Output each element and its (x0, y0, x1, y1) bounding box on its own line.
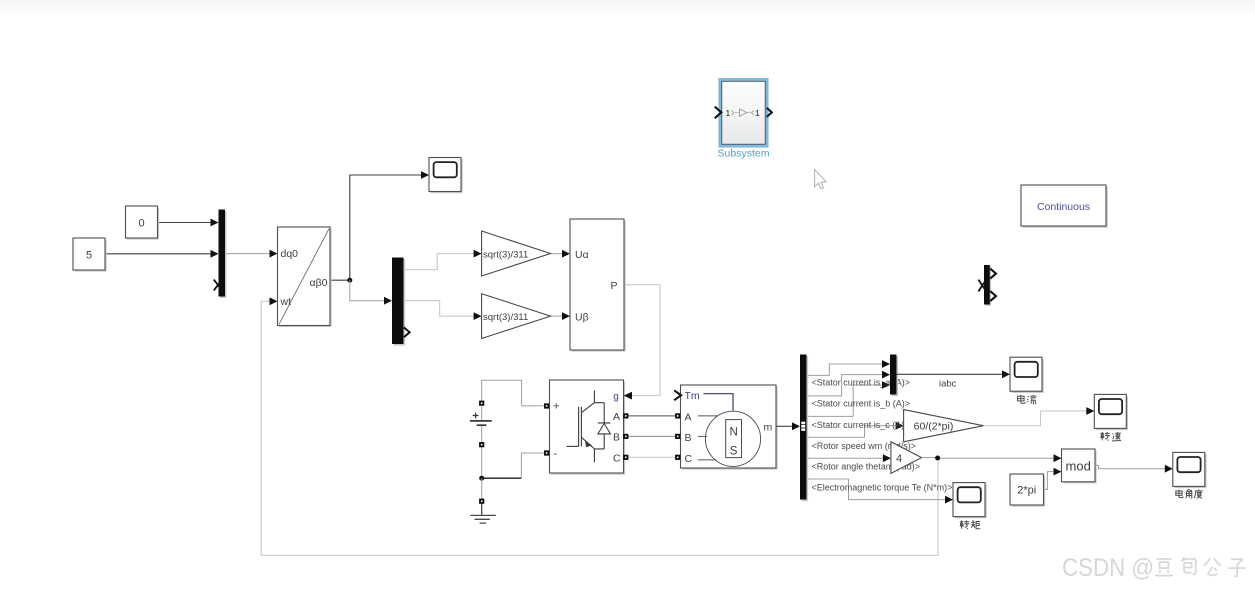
svg-text:<Stator current is_c (A)>: <Stator current is_c (A)> (812, 420, 910, 430)
svg-text:<Electromagnetic torque Te (N*: <Electromagnetic torque Te (N*m)> (812, 483, 953, 493)
wire: bus out4 rotor speed to gain 60/(2*pi) (807, 426, 896, 438)
constant block 5 (75, 240, 107, 272)
svg-text:+: + (553, 401, 559, 413)
wire: gain 4 to mod (922, 457, 1054, 460)
svg-text:B: B (613, 432, 620, 444)
label scope zhuanju (960, 520, 981, 529)
svg-text:A: A (613, 411, 620, 423)
wire: 2*pi to mod in2 (1044, 472, 1054, 490)
wire: constant 0 to Mux (158, 222, 211, 224)
svg-text:-: - (554, 448, 558, 460)
wire: converter C to motor C (628, 456, 676, 458)
wire: DC source top to converter + (482, 380, 544, 406)
node: junction on gain 4 output (935, 456, 940, 461)
wire: mod to scope dianjiaodu (1095, 465, 1165, 468)
node: junction at battery bottom (479, 476, 484, 481)
svg-text:C: C (613, 453, 621, 465)
wire: gain 60 to scope zhuansu (983, 411, 1086, 426)
wire: Demux out2 to Gain sqrt(3)/311 lower (404, 301, 474, 317)
constant block 0 (127, 208, 159, 240)
wire: bus out3 to mux in3 (807, 385, 883, 416)
wire: bus out1 to mux in1 (807, 364, 883, 375)
constant 2*pi (1012, 476, 1046, 507)
svg-text:S: S (730, 446, 738, 458)
svg-text:1: 1 (755, 108, 760, 118)
wire: bus out6 torque to scope (807, 479, 946, 500)
node: unconnected third Mux input X (214, 280, 222, 291)
IGBT and diode icon (567, 391, 611, 463)
wire: Demux out1 to Gain sqrt(3)/311 upper (404, 254, 474, 270)
scope dianjiaodu (1173, 452, 1207, 488)
bus selector block (802, 356, 809, 501)
svg-text:g: g (613, 392, 619, 403)
svg-text:CSDN @: CSDN @ (1062, 554, 1154, 582)
wire: bus out5 rotor angle to gain 4 (807, 457, 883, 459)
gain sqrt(3)/311 upper (482, 231, 551, 276)
svg-text:C: C (685, 453, 693, 465)
motor rotor circle (705, 411, 760, 466)
scope zhuanju (953, 483, 987, 519)
node: junction on dq0 output (347, 278, 352, 283)
mouse cursor (815, 170, 827, 189)
label scope dianliu (1018, 395, 1037, 404)
svg-text:Continuous: Continuous (1037, 201, 1090, 213)
wire: Gain upper to Ua input (551, 253, 563, 255)
label scope dianjiaodu (1176, 489, 1203, 498)
svg-text:αβ0: αβ0 (310, 277, 328, 289)
wire: P output to converter g input (624, 285, 660, 396)
svg-text:m: m (764, 422, 773, 434)
svg-text:5: 5 (86, 250, 92, 262)
ground symbol (479, 499, 484, 504)
gain 60/(2*pi) (904, 410, 984, 442)
block Ua Ub to P (572, 221, 626, 352)
svg-text:A: A (685, 411, 692, 423)
svg-text:2*pi: 2*pi (1017, 485, 1036, 497)
motor internal stubs (698, 415, 718, 417)
svg-text:1: 1 (726, 108, 731, 118)
watermark douBaoGongZi (1155, 557, 1246, 576)
toolbar bottom gradient strip (0, 0, 1255, 16)
node: unconnected demux out3 chevron (404, 327, 410, 337)
mux Mux1 (220, 211, 227, 298)
demux block (394, 259, 406, 346)
svg-text:Tm: Tm (685, 390, 700, 402)
block dq0 to alpha-beta-0 transform (279, 229, 332, 328)
svg-text:dq0: dq0 (281, 248, 299, 260)
block Continuous (powergui) (1023, 187, 1108, 228)
gain 4 (891, 442, 922, 474)
wire: junction down to Demux (350, 280, 384, 301)
wire: mux to scope dianliu (897, 373, 1003, 375)
bus selector input marker (801, 421, 806, 431)
wire: DC source bottom to junction (481, 447, 483, 478)
wire: constant 5 to Mux (105, 253, 211, 255)
svg-text:wt: wt (280, 296, 292, 308)
wire: junction to converter - (black segment) (482, 477, 522, 479)
wire: Gain lower to Ub input (551, 315, 563, 317)
svg-text:4: 4 (896, 453, 902, 465)
universal bridge converter block (551, 382, 625, 475)
scope block top (429, 158, 463, 194)
DC voltage source battery (479, 401, 484, 406)
wire: junction to ground (481, 478, 483, 499)
scope zhuansu (1094, 394, 1128, 430)
svg-text:N: N (729, 427, 737, 439)
svg-text:Uβ: Uβ (575, 312, 589, 324)
svg-text:Uα: Uα (575, 249, 589, 261)
wire: Mux output to dq0 block (225, 253, 270, 255)
converter port squares (544, 403, 549, 408)
mux iabc (892, 356, 899, 396)
mod block (1063, 451, 1097, 484)
scope dianliu (1010, 357, 1044, 393)
svg-text:0: 0 (138, 218, 144, 230)
svg-text:mod: mod (1066, 458, 1091, 473)
svg-text:60/(2*pi): 60/(2*pi) (914, 421, 954, 433)
converter g input arrow (624, 392, 632, 400)
svg-text:Subsystem: Subsystem (718, 148, 770, 160)
small demux (unconnected) (985, 266, 991, 306)
wire: feedback to wt input (261, 301, 938, 555)
motor Tm input chevron (674, 390, 681, 400)
label scope zhuansu (1100, 432, 1121, 441)
subsystem block (selected) (720, 79, 768, 146)
svg-text:<Stator current is_b (A)>: <Stator current is_b (A)> (812, 399, 911, 409)
svg-text:P: P (611, 280, 618, 292)
wire: motor m to bus selector (776, 425, 792, 427)
PMSM motor block (682, 387, 778, 470)
svg-text:iabc: iabc (939, 379, 957, 390)
svg-text:sqrt(3)/311: sqrt(3)/311 (483, 312, 528, 323)
wire: bus out2 to mux in2 (807, 375, 883, 396)
wire: dq0 output to junction and Scope (330, 175, 421, 280)
wire: converter A to motor A (628, 415, 676, 417)
svg-text:sqrt(3)/311: sqrt(3)/311 (483, 249, 528, 260)
svg-text:B: B (685, 432, 692, 444)
magnet N S (726, 420, 742, 458)
wire Tm internal (704, 394, 734, 412)
gain sqrt(3)/311 lower (482, 294, 551, 339)
wire: converter B to motor B (628, 435, 676, 437)
